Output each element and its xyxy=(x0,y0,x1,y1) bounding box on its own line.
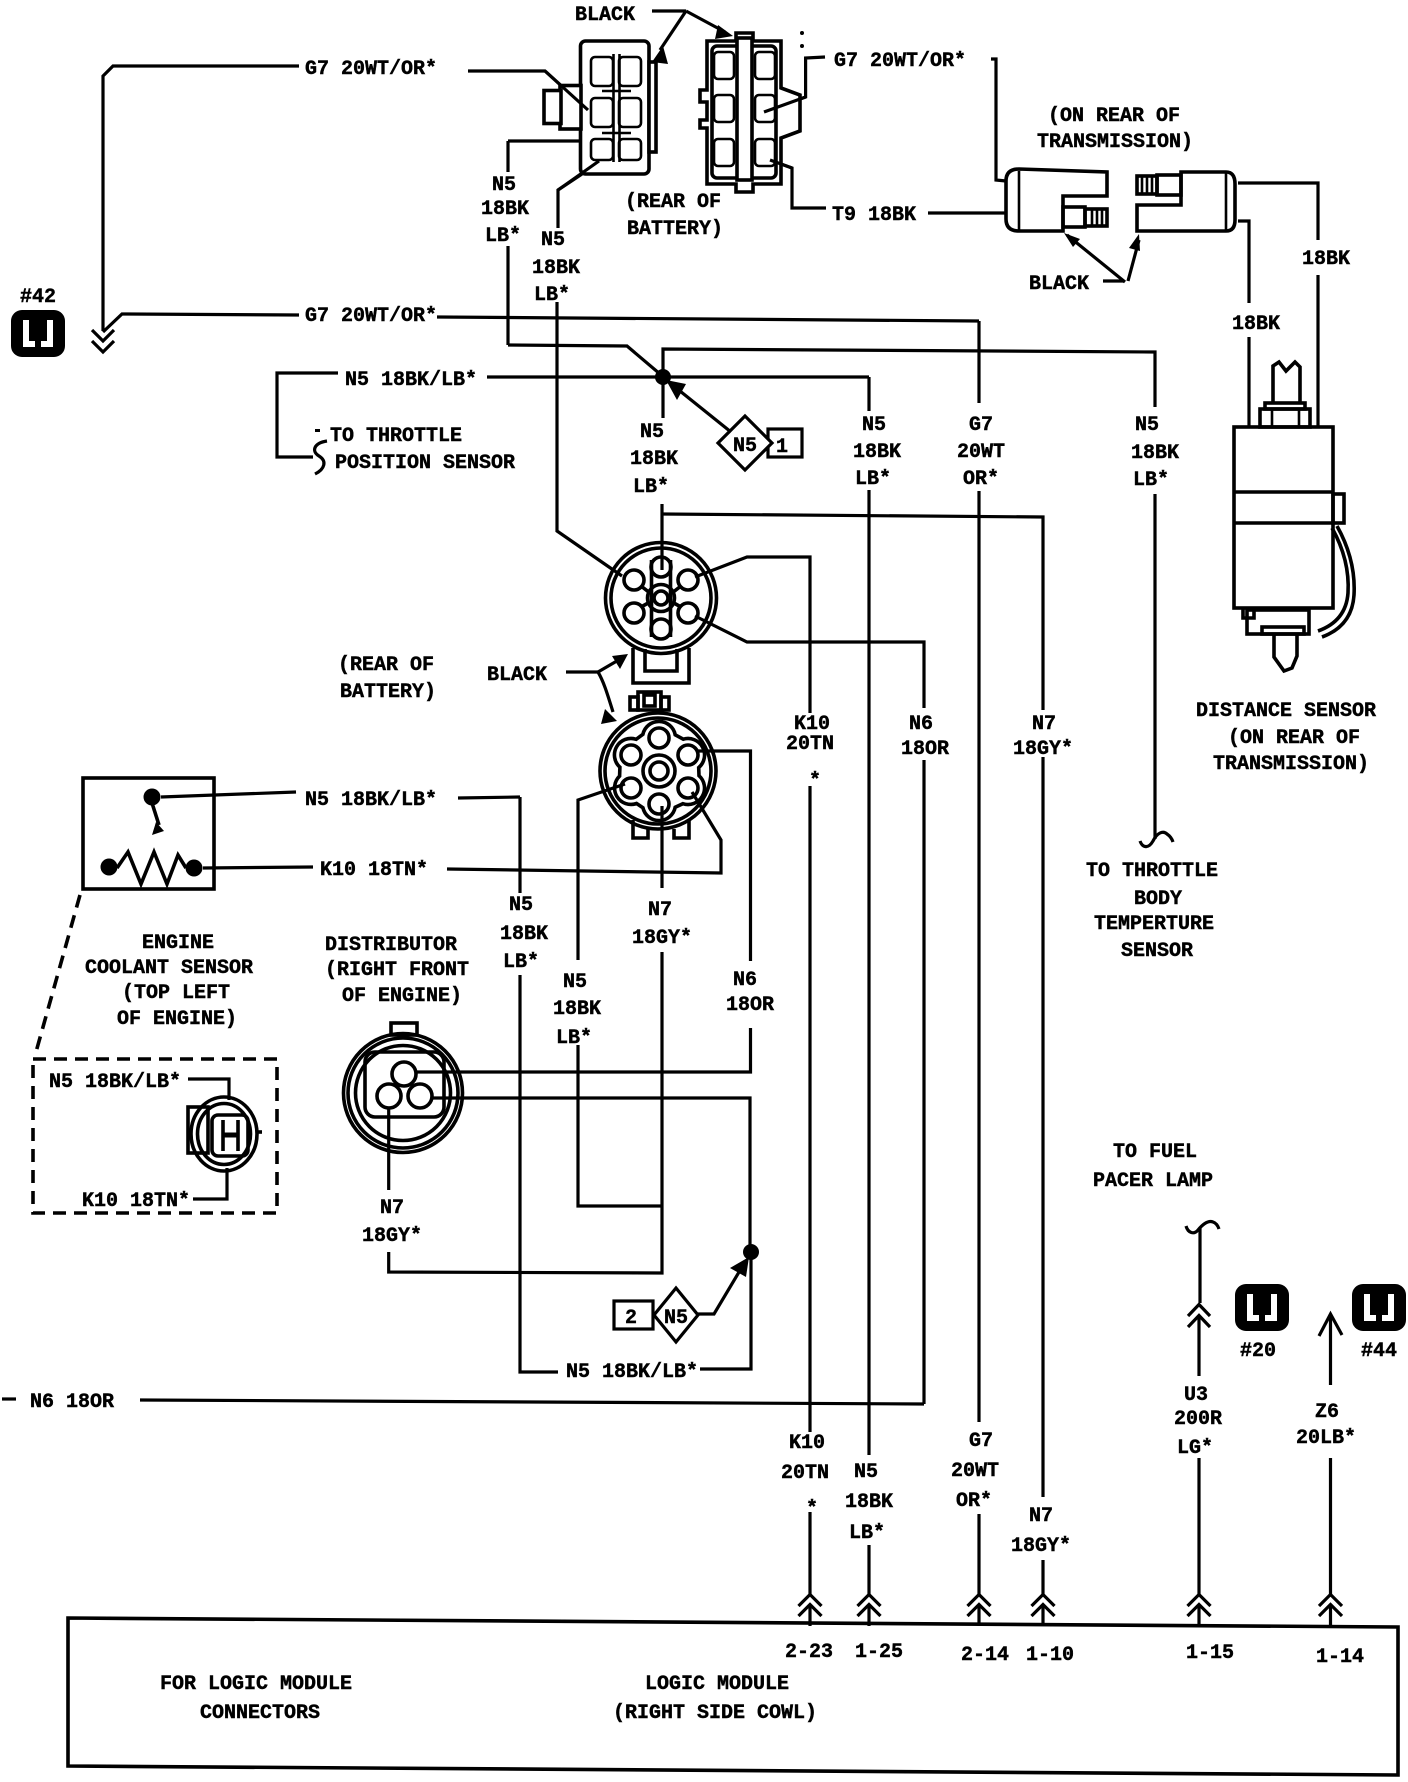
svg-text:N6: N6 xyxy=(909,713,933,736)
svg-text:N6 18OR: N6 18OR xyxy=(30,1391,114,1414)
svg-text:N7: N7 xyxy=(380,1197,404,1220)
svg-text:18BK: 18BK xyxy=(481,198,529,221)
svg-text:LB*: LB* xyxy=(556,1027,592,1050)
svg-text:DISTANCE SENSOR: DISTANCE SENSOR xyxy=(1196,700,1376,723)
svg-text:LB*: LB* xyxy=(855,468,891,491)
svg-text:FOR LOGIC MODULE: FOR LOGIC MODULE xyxy=(160,1673,352,1696)
svg-text:K10 18TN*: K10 18TN* xyxy=(320,859,428,882)
svg-text:BATTERY): BATTERY) xyxy=(627,218,723,241)
svg-text:18BK: 18BK xyxy=(1302,248,1350,271)
svg-text:1-15: 1-15 xyxy=(1186,1642,1234,1665)
svg-text:TRANSMISSION): TRANSMISSION) xyxy=(1213,753,1369,776)
svg-text:*: * xyxy=(809,770,821,793)
svg-text:N7: N7 xyxy=(648,899,672,922)
svg-text:ENGINE: ENGINE xyxy=(142,932,214,955)
svg-text:*: * xyxy=(806,1498,818,1521)
svg-text:TO FUEL: TO FUEL xyxy=(1113,1141,1197,1164)
svg-text:18GY*: 18GY* xyxy=(362,1225,422,1248)
svg-text:G7 20WT/OR*: G7 20WT/OR* xyxy=(305,305,437,328)
svg-text:LG*: LG* xyxy=(1177,1437,1213,1460)
svg-text:#20: #20 xyxy=(1240,1340,1276,1363)
svg-text:Z6: Z6 xyxy=(1315,1401,1339,1424)
svg-text:N6: N6 xyxy=(733,969,757,992)
svg-text:COOLANT SENSOR: COOLANT SENSOR xyxy=(85,957,253,980)
svg-text:18GY*: 18GY* xyxy=(1011,1535,1071,1558)
svg-text:N5: N5 xyxy=(1135,414,1159,437)
svg-text:(RIGHT SIDE COWL): (RIGHT SIDE COWL) xyxy=(613,1702,817,1725)
svg-text:G7: G7 xyxy=(969,414,993,437)
svg-text:N5 18BK/LB*: N5 18BK/LB* xyxy=(345,369,477,392)
svg-text:G7 20WT/OR*: G7 20WT/OR* xyxy=(305,58,437,81)
svg-text:1-14: 1-14 xyxy=(1316,1646,1364,1669)
svg-text:T9 18BK: T9 18BK xyxy=(832,204,916,227)
svg-text:1: 1 xyxy=(776,436,788,459)
svg-text:N5 18BK/LB*: N5 18BK/LB* xyxy=(49,1071,181,1094)
svg-text:18BK: 18BK xyxy=(532,257,580,280)
svg-text:TRANSMISSION): TRANSMISSION) xyxy=(1037,131,1193,154)
svg-text:18GY*: 18GY* xyxy=(632,927,692,950)
svg-text:N5: N5 xyxy=(563,971,587,994)
svg-text:20WT: 20WT xyxy=(957,441,1005,464)
svg-text:2-14: 2-14 xyxy=(961,1644,1009,1667)
svg-text:TO THROTTLE: TO THROTTLE xyxy=(330,425,462,448)
svg-text:U3: U3 xyxy=(1184,1384,1208,1407)
svg-text:200R: 200R xyxy=(1174,1408,1222,1431)
svg-text:#42: #42 xyxy=(20,286,56,309)
svg-text:18BK: 18BK xyxy=(553,998,601,1021)
svg-text:POSITION SENSOR: POSITION SENSOR xyxy=(335,452,515,475)
svg-text:LB*: LB* xyxy=(849,1522,885,1545)
svg-text:N5: N5 xyxy=(509,894,533,917)
svg-text:G7 20WT/OR*: G7 20WT/OR* xyxy=(834,50,966,73)
svg-text:LOGIC MODULE: LOGIC MODULE xyxy=(645,1673,789,1696)
svg-text:18BK: 18BK xyxy=(845,1491,893,1514)
svg-text:N5: N5 xyxy=(733,435,757,458)
svg-text:TEMPERTURE: TEMPERTURE xyxy=(1094,913,1214,936)
svg-text:BATTERY): BATTERY) xyxy=(340,681,436,704)
svg-text:N5 18BK/LB*: N5 18BK/LB* xyxy=(566,1361,698,1384)
svg-text:1-25: 1-25 xyxy=(855,1641,903,1664)
svg-text:18GY*: 18GY* xyxy=(1013,738,1073,761)
svg-text:18BK: 18BK xyxy=(853,441,901,464)
svg-text:N5: N5 xyxy=(664,1307,688,1330)
svg-text:BODY: BODY xyxy=(1134,888,1182,911)
svg-text:LB*: LB* xyxy=(503,951,539,974)
svg-text:2: 2 xyxy=(625,1307,637,1330)
svg-text:PACER LAMP: PACER LAMP xyxy=(1093,1170,1213,1193)
svg-text:G7: G7 xyxy=(969,1430,993,1453)
svg-text:BLACK: BLACK xyxy=(1029,273,1089,296)
svg-text:18BK: 18BK xyxy=(1131,442,1179,465)
svg-text:18BK: 18BK xyxy=(1232,313,1280,336)
svg-text:TO THROTTLE: TO THROTTLE xyxy=(1086,860,1218,883)
svg-text:20WT: 20WT xyxy=(951,1460,999,1483)
svg-text:LB*: LB* xyxy=(1133,469,1169,492)
svg-text:20TN: 20TN xyxy=(786,733,834,756)
svg-text:N7: N7 xyxy=(1032,713,1056,736)
svg-text:(RIGHT FRONT: (RIGHT FRONT xyxy=(325,959,469,982)
svg-text:2-23: 2-23 xyxy=(785,1641,833,1664)
svg-text:LB*: LB* xyxy=(534,284,570,307)
svg-text:(ON REAR OF: (ON REAR OF xyxy=(1228,727,1360,750)
svg-text:K10 18TN*: K10 18TN* xyxy=(82,1190,190,1213)
svg-text:SENSOR: SENSOR xyxy=(1121,940,1193,963)
svg-text:18BK: 18BK xyxy=(500,923,548,946)
svg-text:N5: N5 xyxy=(492,174,516,197)
svg-text:BLACK: BLACK xyxy=(487,664,547,687)
svg-text:(ON REAR OF: (ON REAR OF xyxy=(1048,105,1180,128)
svg-text:N7: N7 xyxy=(1029,1505,1053,1528)
svg-text:K10: K10 xyxy=(789,1432,825,1455)
svg-text:18BK: 18BK xyxy=(630,448,678,471)
svg-text:OF ENGINE): OF ENGINE) xyxy=(342,985,462,1008)
svg-text:1-10: 1-10 xyxy=(1026,1644,1074,1667)
svg-text:OF ENGINE): OF ENGINE) xyxy=(117,1008,237,1031)
svg-text:(TOP LEFT: (TOP LEFT xyxy=(122,982,230,1005)
svg-text:20LB*: 20LB* xyxy=(1296,1427,1356,1450)
svg-text:LB*: LB* xyxy=(485,225,521,248)
svg-text:#44: #44 xyxy=(1361,1340,1397,1363)
svg-text:(REAR OF: (REAR OF xyxy=(338,654,434,677)
svg-text:OR*: OR* xyxy=(956,1490,992,1513)
svg-text:OR*: OR* xyxy=(963,468,999,491)
svg-text:N5: N5 xyxy=(862,414,886,437)
svg-text:CONNECTORS: CONNECTORS xyxy=(200,1702,320,1725)
svg-text:N5 18BK/LB*: N5 18BK/LB* xyxy=(305,789,437,812)
svg-text:N5: N5 xyxy=(640,421,664,444)
svg-text:N5: N5 xyxy=(854,1461,878,1484)
svg-text:LB*: LB* xyxy=(633,476,669,499)
svg-text:N5: N5 xyxy=(541,229,565,252)
svg-text:(REAR OF: (REAR OF xyxy=(625,191,721,214)
svg-text:18OR: 18OR xyxy=(901,738,949,761)
svg-text:20TN: 20TN xyxy=(781,1462,829,1485)
svg-text:18OR: 18OR xyxy=(726,994,774,1017)
svg-text:BLACK: BLACK xyxy=(575,4,635,27)
svg-text:DISTRIBUTOR: DISTRIBUTOR xyxy=(325,934,457,957)
